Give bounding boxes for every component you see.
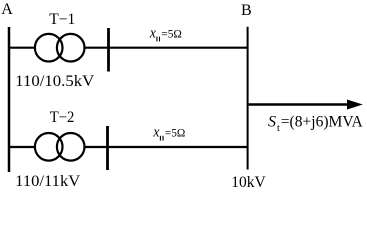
- svg-text:=(8+j6)MVA: =(8+j6)MVA: [281, 113, 364, 130]
- svg-text:T−1: T−1: [49, 11, 75, 28]
- svg-text:110/10.5kV: 110/10.5kV: [15, 73, 94, 90]
- svg-text:T−2: T−2: [50, 109, 75, 126]
- svg-text:=5Ω: =5Ω: [165, 128, 186, 140]
- load value St=(8+j6)MVA: [268, 113, 364, 134]
- bus tick (row 1): [107, 28, 110, 72]
- svg-text:B: B: [241, 2, 252, 19]
- wire (row 2: bus A to bus B through T-2): [9, 146, 248, 148]
- svg-text:x: x: [149, 25, 156, 41]
- bus tick (row 2): [106, 126, 109, 170]
- bus A (left vertical busbar): [8, 27, 11, 172]
- svg-text:10kV: 10kV: [231, 174, 266, 191]
- svg-text:S: S: [268, 113, 276, 130]
- transformer T2: [35, 133, 85, 161]
- load arrow from bus B: [249, 100, 363, 110]
- svg-text:A: A: [1, 1, 13, 18]
- transformer T1: [35, 34, 85, 62]
- svg-text:110/11kV: 110/11kV: [15, 173, 80, 190]
- svg-text:=5Ω: =5Ω: [161, 28, 182, 40]
- line reactance label x11=5ohm (row 1): [149, 25, 182, 41]
- wire (row 1: bus A to bus B through T-1): [9, 47, 248, 49]
- bus B (right vertical busbar): [247, 27, 249, 170]
- line reactance label x11=5ohm (row 2): [153, 125, 186, 141]
- svg-text:t: t: [277, 123, 280, 134]
- svg-text:x: x: [153, 125, 160, 141]
